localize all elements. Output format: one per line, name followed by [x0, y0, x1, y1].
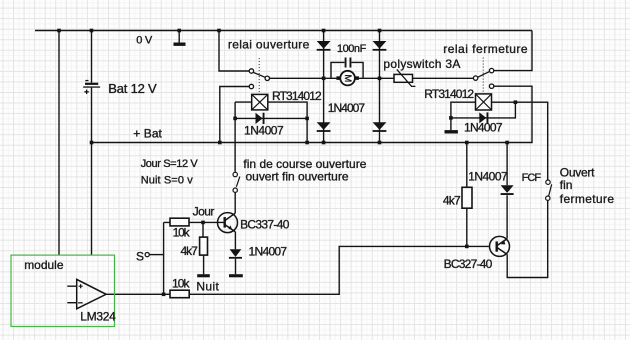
junction +Bat rail / K1 throw — [218, 141, 222, 145]
svg-text:1N4007: 1N4007 — [249, 245, 288, 259]
junction 0V rail / module supply left — [57, 29, 61, 33]
switch FCF (fin course fermeture) — [546, 180, 552, 200]
relay coil RT314012 (ouverture) — [252, 94, 268, 110]
junction +Bat rail / battery — [90, 141, 94, 145]
wire +Bat to diode D7 to BC327 emitter — [506, 143, 508, 239]
wire ouverture flyback diode branch — [235, 102, 307, 142]
svg-text:0 V: 0 V — [136, 35, 153, 47]
transistor Q2 BC327-40 — [490, 236, 510, 256]
switch fin de course ouverture — [233, 172, 240, 192]
svg-text:RT314012: RT314012 — [424, 87, 474, 101]
ground fermeture coil — [445, 130, 458, 133]
svg-text:S: S — [136, 249, 144, 263]
op-amp U1 LM324 — [67, 279, 106, 308]
junction LM324 output / S branch — [162, 293, 166, 297]
svg-text:1N4007: 1N4007 — [464, 121, 503, 135]
wire ground stub 0V — [178, 31, 180, 43]
capacitor C1 100nF — [345, 58, 352, 68]
svg-text:relai fermeture: relai fermeture — [443, 42, 528, 56]
junction 0V rail / ground stub — [177, 29, 181, 33]
diode D1 top-left bridge — [317, 41, 331, 51]
wire capacitor loop — [331, 62, 363, 78]
wire motor left segment — [270, 77, 341, 79]
module box — [11, 255, 115, 326]
junction +Bat rail / ouverture coil leg — [305, 141, 309, 145]
diode D flyback ouverture — [256, 113, 265, 124]
wire relai ouverture lower throw to +Bat — [220, 87, 249, 143]
wire H-bridge right leg — [379, 31, 381, 143]
wire +Bat rail — [92, 86, 533, 142]
junction motor wire / bridge right leg — [378, 77, 382, 81]
svg-text:M: M — [342, 74, 353, 82]
svg-text:10k: 10k — [172, 277, 191, 291]
wire H-bridge left leg — [323, 31, 325, 143]
junction ouverture flyback cathode — [305, 117, 309, 121]
wire fermeture coil left pin to ground — [451, 102, 476, 130]
wire 4k7 left leg — [202, 222, 205, 274]
wire S node vertical — [163, 222, 165, 294]
ground 0V — [174, 43, 186, 46]
wire S terminal lead — [149, 254, 163, 256]
svg-text:module: module — [24, 258, 64, 272]
wire battery bottom segment to module — [91, 88, 93, 255]
wire ouverture coil left leg down through limit switch to BC337 collector — [234, 102, 236, 213]
wire left supply drop to module — [58, 31, 60, 256]
dotted link relay K1 — [258, 58, 260, 93]
junction BC327 base / 4k7 — [465, 245, 469, 249]
svg-text:LM324: LM324 — [80, 309, 116, 323]
svg-text:Bat 12 V: Bat 12 V — [108, 81, 157, 96]
diode D7 BC327 emitter feed — [501, 185, 514, 195]
svg-text:RT314012: RT314012 — [272, 89, 322, 103]
svg-text:100nF: 100nF — [337, 43, 367, 55]
relay contact K1 (ouverture) — [249, 69, 269, 89]
junction motor wire / bridge left leg — [322, 77, 326, 81]
junction ouverture flyback anode — [233, 117, 237, 121]
dotted link relay K2 — [482, 58, 484, 94]
svg-text:BC327-40: BC327-40 — [444, 257, 493, 271]
junction 0V rail / K1 feed — [217, 29, 221, 33]
junction +Bat rail / bridge right leg — [378, 141, 382, 145]
svg-text:10k: 10k — [173, 225, 191, 239]
svg-text:1N4007: 1N4007 — [328, 101, 366, 115]
diode D4 bottom-right bridge — [373, 122, 387, 132]
transistor Q1 BC337-40 — [218, 213, 238, 233]
svg-text:Nuit: Nuit — [196, 280, 219, 294]
wire relai ouverture NO feed — [219, 31, 249, 72]
junction 0V rail / battery — [90, 29, 94, 33]
svg-text:relai ouverture: relai ouverture — [228, 38, 310, 52]
wire ouverture coil left pin — [235, 101, 252, 103]
relay contact K2 (fermeture) — [473, 68, 493, 88]
svg-text:Jour S=12 V: Jour S=12 V — [141, 158, 199, 170]
junction 0V rail / bridge right leg — [378, 29, 382, 33]
svg-text:FCF: FCF — [522, 172, 542, 184]
svg-text:4k7: 4k7 — [181, 244, 199, 258]
svg-text:+ Bat: + Bat — [133, 127, 162, 141]
battery Bat 12V — [83, 80, 100, 94]
svg-text:fin: fin — [560, 178, 573, 192]
junction +Bat rail / bridge left leg — [322, 141, 326, 145]
wire LM324 output to BC327 base — [106, 246, 489, 294]
resistor R3 10k (Nuit) — [170, 290, 189, 298]
svg-text:4k7: 4k7 — [443, 194, 461, 208]
wire fermeture coil right pin to FCF switch — [492, 102, 548, 180]
motor M1 — [336, 71, 359, 86]
wire +Bat to 4k7 right — [466, 143, 468, 247]
svg-text:Nuit S=0 v: Nuit S=0 v — [141, 174, 194, 186]
ground 4k7 left — [197, 274, 210, 277]
diode D flyback fermeture — [479, 112, 488, 123]
resistor R4 4k7 (right) — [462, 187, 472, 208]
wire fermeture flyback diode branch — [451, 102, 516, 118]
svg-text:ouvert fin ouverture: ouvert fin ouverture — [246, 170, 349, 184]
ground BC337 emitter — [229, 274, 243, 277]
wire 0V top rail — [35, 30, 532, 32]
wire BC337 emitter to diode to ground — [234, 232, 236, 274]
wire 10k jour to BC337 base — [164, 221, 224, 223]
junction fermeture flyback anode — [449, 116, 453, 120]
wire battery top segment — [91, 31, 93, 83]
diode D5 BC337 emitter — [229, 249, 242, 258]
svg-text:1N4007: 1N4007 — [468, 169, 508, 183]
terminal S — [145, 253, 149, 257]
junction fermeture coil right pin — [514, 100, 518, 104]
svg-text:BC337-40: BC337-40 — [240, 218, 290, 232]
junction 0V rail / bridge left leg — [322, 29, 326, 33]
junction +Bat rail / 4k7 right — [465, 141, 469, 145]
relay coil RT314012 (fermeture) — [476, 94, 492, 110]
polyswitch F1 — [394, 69, 415, 86]
svg-text:fermeture: fermeture — [560, 192, 615, 206]
resistor R1 10k (Jour) — [170, 218, 189, 226]
wire relai fermeture NO to 0V rail — [494, 31, 532, 71]
wire FCF switch to BC327 collector — [507, 201, 548, 278]
wire motor right to polyswitch to fermeture common — [355, 77, 474, 79]
diode D2 top-right bridge — [373, 41, 387, 51]
junction BC337 base divider — [201, 221, 205, 225]
svg-text:1N4007: 1N4007 — [244, 124, 284, 138]
junction +Bat rail / D7 — [505, 141, 509, 145]
resistor R2 4k7 (left) — [200, 237, 208, 255]
svg-text:Jour: Jour — [193, 204, 215, 218]
svg-text:polyswitch 3A: polyswitch 3A — [383, 57, 460, 71]
diode D3 bottom-left bridge — [317, 122, 331, 132]
